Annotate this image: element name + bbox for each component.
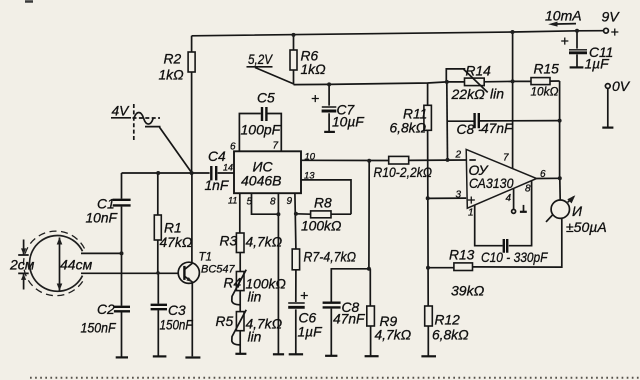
svg-text:10nF: 10nF bbox=[86, 211, 119, 226]
svg-text:1kΩ: 1kΩ bbox=[159, 68, 185, 83]
svg-text:5,2V: 5,2V bbox=[248, 51, 273, 67]
svg-text:9V: 9V bbox=[602, 9, 621, 25]
svg-text:47nF: 47nF bbox=[333, 312, 366, 327]
svg-text:R14: R14 bbox=[466, 64, 492, 79]
svg-text:R4: R4 bbox=[224, 276, 242, 291]
svg-text:R5: R5 bbox=[216, 314, 234, 329]
svg-text:C1: C1 bbox=[97, 197, 115, 212]
svg-text:47kΩ: 47kΩ bbox=[160, 235, 193, 250]
svg-text:100kΩ: 100kΩ bbox=[301, 219, 342, 234]
svg-text:8: 8 bbox=[525, 184, 531, 195]
svg-text:R15: R15 bbox=[534, 62, 560, 77]
svg-text:R8: R8 bbox=[314, 196, 332, 211]
svg-text:И: И bbox=[572, 203, 583, 219]
svg-text:6,8kΩ: 6,8kΩ bbox=[390, 121, 427, 136]
svg-text:+: + bbox=[561, 33, 569, 49]
svg-text:C6: C6 bbox=[299, 311, 317, 326]
svg-text:BC547: BC547 bbox=[201, 264, 236, 276]
svg-text:6,8kΩ: 6,8kΩ bbox=[432, 328, 469, 343]
svg-text:3: 3 bbox=[456, 190, 462, 201]
svg-text:C10 - 330pF: C10 - 330pF bbox=[481, 249, 549, 265]
svg-text:1µF: 1µF bbox=[585, 57, 611, 72]
svg-text:8: 8 bbox=[270, 197, 276, 208]
svg-text:C3: C3 bbox=[168, 303, 186, 318]
svg-text:4,7kΩ: 4,7kΩ bbox=[246, 235, 283, 250]
svg-text:7: 7 bbox=[503, 153, 509, 164]
svg-text:10kΩ: 10kΩ bbox=[531, 85, 559, 99]
svg-text:47nF: 47nF bbox=[481, 121, 514, 136]
svg-text:R11: R11 bbox=[403, 107, 427, 122]
svg-text:14: 14 bbox=[223, 163, 233, 173]
svg-text:lin: lin bbox=[248, 290, 262, 305]
svg-text:C8 -: C8 - bbox=[457, 122, 483, 137]
svg-text:R2: R2 bbox=[164, 52, 182, 67]
svg-text:4V: 4V bbox=[112, 104, 131, 119]
svg-text:39kΩ: 39kΩ bbox=[451, 283, 485, 299]
svg-text:10µF: 10µF bbox=[332, 115, 365, 130]
svg-text:4: 4 bbox=[506, 193, 512, 204]
svg-text:lin: lin bbox=[490, 86, 504, 102]
svg-text:R7-4,7kΩ: R7-4,7kΩ bbox=[304, 250, 357, 265]
svg-text:4,7kΩ: 4,7kΩ bbox=[375, 328, 412, 343]
svg-text:2: 2 bbox=[455, 150, 462, 161]
svg-text:10: 10 bbox=[305, 152, 316, 163]
svg-text:6: 6 bbox=[230, 142, 236, 153]
svg-text:lin: lin bbox=[248, 330, 262, 345]
svg-text:R3: R3 bbox=[220, 234, 238, 249]
svg-text:+: + bbox=[300, 287, 308, 303]
svg-text:СА3130: СА3130 bbox=[469, 176, 514, 191]
svg-text:11: 11 bbox=[228, 196, 237, 206]
svg-text:150nF: 150nF bbox=[81, 321, 117, 336]
svg-text:1kΩ: 1kΩ bbox=[301, 62, 327, 77]
svg-text:C5: C5 bbox=[257, 91, 275, 106]
svg-text:R1: R1 bbox=[164, 221, 182, 236]
svg-text:R13: R13 bbox=[449, 248, 475, 263]
svg-text:R12: R12 bbox=[435, 313, 461, 328]
svg-text:6: 6 bbox=[540, 169, 546, 180]
svg-text:150nF: 150nF bbox=[160, 318, 194, 333]
svg-text:R10-2,2kΩ: R10-2,2kΩ bbox=[374, 165, 433, 180]
svg-text:+: + bbox=[611, 24, 619, 40]
svg-text:13: 13 bbox=[304, 171, 315, 182]
svg-text:22kΩ: 22kΩ bbox=[451, 86, 486, 102]
svg-text:4046В: 4046В bbox=[241, 173, 281, 189]
svg-text:+: + bbox=[311, 90, 319, 106]
svg-text:C2: C2 bbox=[97, 302, 115, 317]
svg-text:C4: C4 bbox=[208, 149, 226, 164]
svg-text:0V: 0V bbox=[612, 78, 631, 94]
svg-text:+: + bbox=[467, 192, 475, 208]
svg-text:100pF: 100pF bbox=[241, 122, 282, 138]
svg-text:9: 9 bbox=[287, 196, 293, 207]
svg-text:10mA: 10mA bbox=[545, 8, 582, 24]
svg-text:1: 1 bbox=[468, 208, 474, 219]
svg-text:T1: T1 bbox=[199, 252, 212, 264]
svg-text:±50µA: ±50µA bbox=[566, 219, 607, 235]
svg-text:44см: 44см bbox=[60, 257, 93, 273]
svg-text:1µF: 1µF bbox=[298, 325, 324, 340]
svg-text:5: 5 bbox=[247, 197, 253, 208]
svg-text:7: 7 bbox=[273, 141, 279, 152]
svg-text:1nF: 1nF bbox=[205, 178, 230, 193]
svg-text:2см: 2см bbox=[9, 257, 35, 273]
